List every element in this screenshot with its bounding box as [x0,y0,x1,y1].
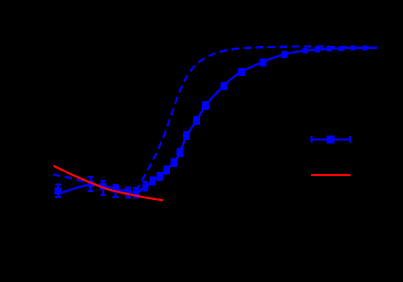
square marker data point 16 [221,83,228,90]
error bar on data point 2 [88,177,94,191]
square marker data point 7 [142,183,148,189]
square marker data point 19 [282,51,288,57]
square marker data point 15 [202,102,209,109]
square marker data point 23 [339,46,344,51]
error bar on data point 14 [194,117,200,124]
square marker data point 14 [193,117,200,124]
error bar on data point 17 [239,69,245,75]
square marker data point 10 [163,167,170,174]
legend red line sample [311,174,351,176]
error bar on data point 16 [221,83,227,89]
error bar on data point 7 [143,182,149,191]
red curve [54,166,164,201]
error bar on data point 10 [164,167,170,174]
square marker data point 20 [302,48,308,54]
square marker data point 25 [363,45,368,50]
blue dashed model curve [53,47,377,191]
square marker data point 13 [183,132,190,139]
square marker data point 9 [156,173,163,180]
square marker data point 2 [87,181,94,188]
error bar on data point 8 [150,177,156,184]
square marker data point 22 [326,46,332,52]
error bar on data point 13 [184,132,190,139]
legend blue errorbar sample [312,136,350,142]
square marker data point 1 [55,187,62,194]
error bar on data point 4 [113,185,119,197]
square marker data point 8 [149,178,155,184]
square marker data point 17 [238,68,245,75]
error bar on data point 15 [203,102,209,109]
square marker data point 5 [125,189,132,196]
error bar on data point 19 [282,52,288,57]
legend blue square marker [327,135,335,143]
square marker data point 24 [351,46,356,51]
error bar on data point 12 [177,149,183,156]
square marker data point 21 [314,47,320,53]
square marker data point 3 [100,183,107,190]
error bar on data point 9 [157,173,163,180]
square marker data point 12 [177,149,184,156]
square marker data point 6 [133,189,140,196]
blue solid data curve [58,48,377,193]
square marker data point 4 [112,186,119,193]
error bar on data point 5 [125,187,131,197]
error bar on data point 6 [133,188,139,197]
error bar on data point 1 [55,185,61,198]
square marker data point 11 [171,159,178,166]
error bar on data point 11 [171,159,177,166]
error bar on data point 18 [260,60,266,66]
error bar on data point 3 [100,181,106,195]
square marker data point 18 [260,59,267,66]
